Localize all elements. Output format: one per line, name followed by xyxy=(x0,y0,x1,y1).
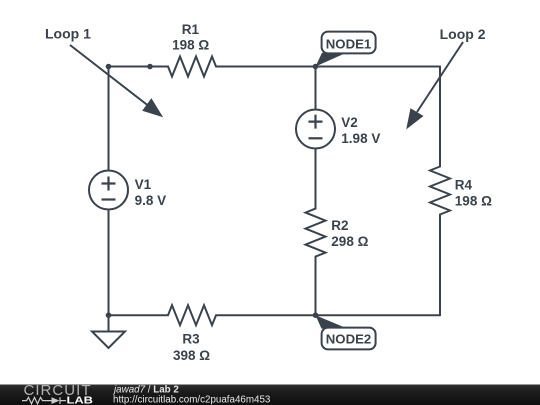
svg-text:198 Ω: 198 Ω xyxy=(172,38,209,53)
svg-text:http://circuitlab.com/c2puafa4: http://circuitlab.com/c2puafa46m453 xyxy=(113,394,271,405)
svg-text:NODE1: NODE1 xyxy=(326,37,371,52)
svg-text:R4: R4 xyxy=(455,178,473,193)
svg-text:398 Ω: 398 Ω xyxy=(173,348,210,363)
svg-text:Loop 2: Loop 2 xyxy=(440,26,486,42)
svg-text:R2: R2 xyxy=(331,218,348,233)
svg-text:9.8 V: 9.8 V xyxy=(135,193,167,208)
svg-text:LAB: LAB xyxy=(67,394,94,405)
svg-text:298 Ω: 298 Ω xyxy=(331,234,368,249)
svg-text:198 Ω: 198 Ω xyxy=(455,193,492,208)
svg-text:Loop 1: Loop 1 xyxy=(45,26,91,42)
svg-text:V1: V1 xyxy=(135,177,152,192)
svg-text:1.98 V: 1.98 V xyxy=(341,131,380,146)
svg-text:NODE2: NODE2 xyxy=(326,331,371,346)
svg-text:V2: V2 xyxy=(341,115,358,130)
svg-text:R1: R1 xyxy=(182,22,200,37)
svg-text:R3: R3 xyxy=(182,332,200,347)
